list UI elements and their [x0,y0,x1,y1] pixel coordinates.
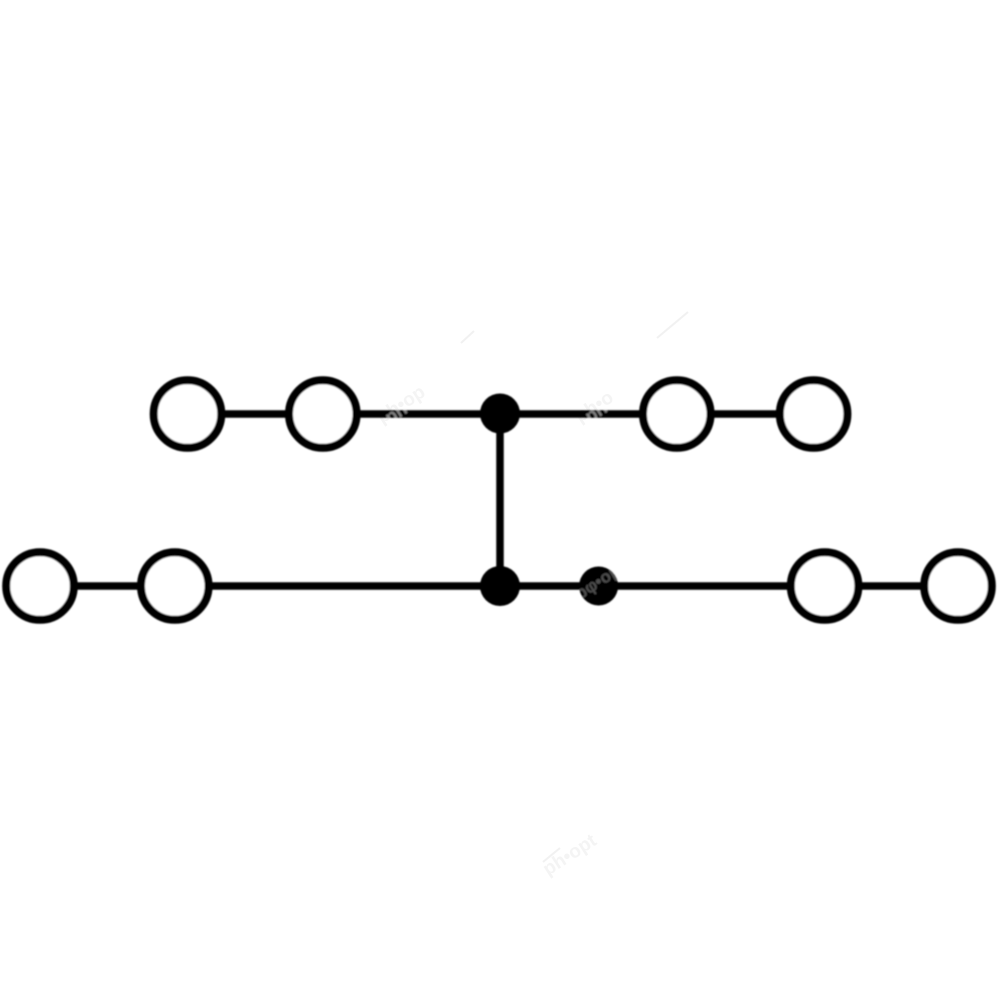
terminal circle top 3 [643,380,711,448]
faint watermark marks [461,312,688,862]
wire: vertical jumper between rails [496,414,504,586]
terminal circle bottom 2 [141,552,209,620]
junction dot top [480,394,520,434]
terminal circle bottom 1 [6,552,74,620]
wire: top rail (y=414) [187,410,814,418]
terminal circle top 2 [289,380,357,448]
terminal circle bottom 3 [791,552,859,620]
terminal circle top 1 [154,380,222,448]
junction dot bottom right (with watermark overlay) [572,557,629,605]
junction dot bottom [480,566,520,606]
terminal circle bottom 4 [924,552,992,620]
wire: bottom rail (y=586) [40,582,958,590]
terminal circle top 4 [780,380,848,448]
